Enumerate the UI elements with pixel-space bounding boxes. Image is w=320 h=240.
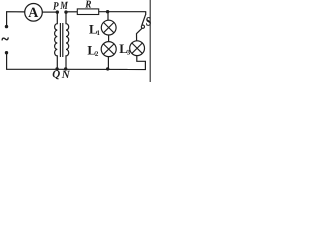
node N [64,67,67,70]
svg-text:~: ~ [2,32,10,47]
svg-text:R: R [84,0,91,10]
wire ammeter to node P [42,11,57,13]
wire lamp L1 to lamp L2 [108,35,110,42]
transformer T1 core [59,23,61,57]
wire node M to resistor R [66,11,77,13]
node P [56,10,59,13]
node junction top of L1 branch [106,10,109,13]
wire bottom left from source [7,53,58,70]
svg-text:3: 3 [127,48,131,56]
svg-text:S: S [146,15,151,29]
node Q [55,67,58,70]
node junction bottom of L2 branch [106,67,109,70]
svg-text:1: 1 [97,29,101,37]
wire switch to lamp L3 [136,34,138,41]
switch S [136,12,146,34]
ammeter A1 [25,4,43,22]
wire lamp L2 to bottom wire [107,57,109,70]
resistor R [77,9,98,15]
wire junction down to lamp L1 [107,12,109,21]
wire bottom from N to L3 corner [57,68,146,70]
transformer T1 secondary winding M-N [66,12,69,69]
transformer T1 primary winding P-Q [55,12,58,69]
border right edge [149,0,151,82]
svg-text:N: N [61,69,71,81]
svg-text:Q: Q [52,69,60,81]
svg-text:P: P [53,0,59,12]
node M [64,10,67,13]
ac source terminal top [5,25,8,28]
lamp L2 [101,42,116,57]
svg-text:M: M [60,0,69,12]
lamp L1 [101,20,116,35]
wire top left from source to ammeter [7,12,25,27]
lamp L3 [130,41,145,56]
ac source terminal bottom [5,51,8,54]
wire resistor to right corner [99,11,147,13]
wire lamp L3 to bottom right corner [137,56,146,70]
svg-text:2: 2 [95,50,99,58]
svg-text:A: A [28,5,39,21]
